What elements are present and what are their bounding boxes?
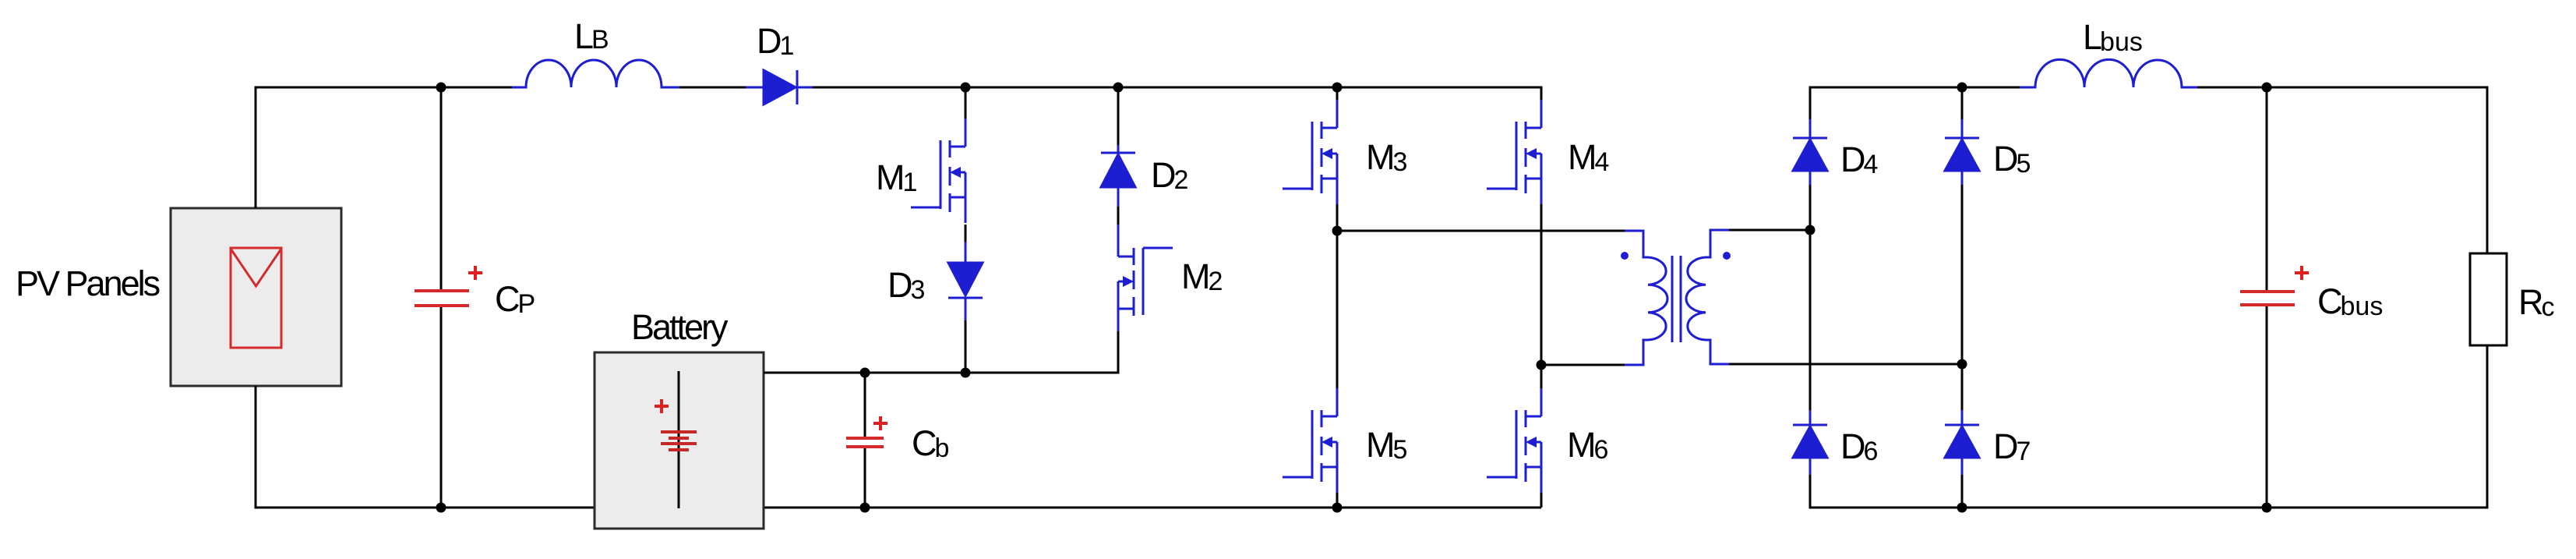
svg-text:CP: CP (495, 279, 535, 319)
svg-text:D6: D6 (1840, 426, 1878, 466)
junction M3-M5 midpoint (1332, 226, 1343, 236)
svg-text:Rc: Rc (2518, 282, 2555, 322)
resistor Rc (2470, 253, 2507, 345)
svg-text:D7: D7 (1993, 426, 2031, 466)
mosfet M4 (1487, 100, 1541, 204)
junction M1 leg top (961, 83, 971, 93)
wire primary top rail (1337, 230, 1625, 232)
wire M5 source (1336, 493, 1339, 508)
battery electrode (678, 371, 680, 508)
junction Cb bottom (860, 503, 870, 513)
junction Cbus bottom (2262, 503, 2272, 513)
wire M3-M5 leg (1336, 231, 1339, 392)
polarity dot secondary (1723, 252, 1731, 260)
inductor LB (512, 60, 679, 87)
wire top bus mid1 (679, 87, 746, 89)
wire M2 source and battery rail (764, 331, 1118, 373)
svg-text:Cbus: Cbus (2317, 281, 2383, 321)
svg-text:M6: M6 (1567, 425, 1608, 465)
transformer primary winding (1625, 231, 1667, 365)
wire D4-D6 (1809, 185, 1812, 230)
wire secondary top (1729, 229, 1810, 232)
diode D3 (948, 242, 983, 320)
junction M3 leg top (1332, 83, 1343, 93)
wire M4 drain (1540, 101, 1543, 128)
plus battery (655, 399, 669, 413)
diode D1 (746, 70, 813, 104)
svg-text:Lbus: Lbus (2083, 17, 2143, 57)
junction Cbus top (2262, 83, 2272, 93)
plus Cbus (2295, 266, 2309, 280)
wire top-left vertical and top bus left (256, 87, 512, 208)
junction secondary bottom to bridge (1957, 359, 1967, 370)
svg-text:Battery: Battery (631, 307, 729, 347)
wire top bus mid2 (813, 87, 1541, 101)
diode D5 (1945, 119, 1979, 185)
diode D4 (1793, 119, 1827, 185)
svg-text:D2: D2 (1151, 155, 1188, 195)
svg-text:LB: LB (574, 16, 609, 56)
wire bridge top-left and left leg top (1810, 87, 2020, 119)
junction secondary top to bridge (1805, 225, 1816, 235)
mosfet M1 (911, 119, 965, 223)
wire M1 drain (965, 87, 967, 119)
mosfet M6 (1487, 388, 1541, 493)
svg-text:Cb: Cb (912, 423, 949, 463)
wire D3 bottom (965, 320, 967, 373)
wire bottom-left vertical and bottom bus (256, 386, 1541, 508)
plus CP (468, 266, 482, 280)
capacitor CP (440, 87, 443, 289)
mosfet M3 (1283, 100, 1337, 204)
diode D6 (1793, 410, 1827, 475)
svg-text:D4: D4 (1840, 140, 1878, 179)
junction bridge top right leg (1957, 83, 1967, 93)
polarity dot primary (1621, 252, 1629, 260)
inductor Lbus (2020, 59, 2197, 87)
svg-text:D1: D1 (757, 21, 794, 61)
wire primary bottom rail (1541, 364, 1625, 366)
wire D2 top (1117, 87, 1120, 145)
wire M1-D3 (965, 225, 967, 242)
battery box (595, 352, 764, 529)
wire M6 source (1540, 493, 1543, 508)
svg-text:D5: D5 (1993, 139, 2031, 179)
svg-text:M4: M4 (1568, 137, 1609, 177)
wire D6 bottom and bridge bottom bus (1810, 475, 2487, 508)
wire M3 source (1336, 204, 1339, 231)
junction Cb top (860, 368, 870, 378)
wire secondary bottom (1729, 363, 1962, 366)
junction M4-M6 midpoint (1537, 360, 1547, 370)
svg-text:M3: M3 (1366, 137, 1407, 177)
wire D2-M2 (1117, 207, 1120, 225)
PV Panels box (171, 208, 341, 386)
svg-text:M1: M1 (876, 157, 917, 197)
junction CP bottom (436, 503, 446, 513)
wire D7 bottom (1961, 475, 1964, 508)
wire bridge right leg top (1961, 87, 1964, 119)
battery plates (661, 432, 697, 450)
junction M5 source bottom (1332, 503, 1343, 513)
wire M6 drain (1540, 365, 1543, 392)
wire right edge bottom (2485, 345, 2487, 508)
junction bridge bottom right leg (1957, 503, 1967, 513)
junction D3 bottom rail (961, 368, 971, 378)
capacitor Cb (864, 373, 866, 437)
junction CP top (436, 83, 446, 93)
wire M4 source (1540, 204, 1543, 365)
wire top bus right (2197, 87, 2487, 253)
PV panel symbol (231, 248, 281, 348)
svg-text:M2: M2 (1181, 257, 1223, 296)
junction D2 leg top (1113, 83, 1124, 93)
capacitor Cbus (2266, 87, 2268, 290)
svg-text:PV Panels: PV Panels (16, 264, 160, 303)
wire M3 drain (1336, 87, 1339, 101)
wire D5-D7 (1961, 185, 1964, 410)
svg-text:M5: M5 (1366, 425, 1407, 465)
diode D2 (1101, 145, 1135, 207)
svg-text:D3: D3 (887, 265, 925, 305)
mosfet M5 (1283, 388, 1337, 493)
mosfet M2 (gate right) (1118, 248, 1173, 331)
diode D7 (1945, 410, 1979, 475)
transformer core (1671, 256, 1674, 342)
plus Cb (873, 416, 887, 430)
transformer secondary winding (1686, 230, 1729, 364)
